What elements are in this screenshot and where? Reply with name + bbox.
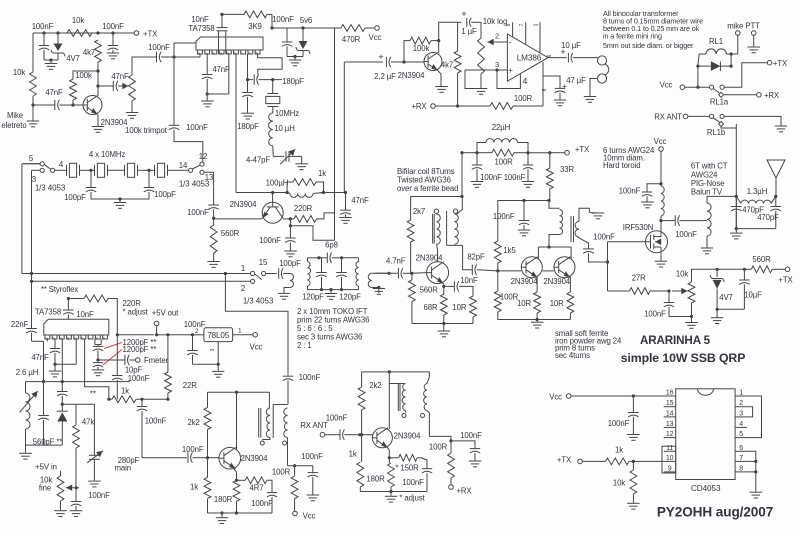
op-amp U2 LM386 [507, 34, 548, 81]
capacitor 10nF mixer [444, 276, 478, 296]
label Mike eletreto [1, 111, 27, 130]
resistor 150R [389, 454, 421, 472]
wire vfo tank bottom [26, 445, 63, 453]
transistor Q8 2N3904 buffer [219, 447, 268, 469]
resistor 180R rx [366, 458, 394, 493]
resistor 2k2 buffer [187, 392, 210, 458]
wire mixer bottom row [412, 322, 473, 331]
svg-text:main: main [115, 464, 132, 473]
red pointer a [104, 343, 122, 349]
label 2.6uH [16, 368, 39, 377]
terminal Vcc top [369, 26, 382, 42]
wire LM386 pin8 top [506, 22, 513, 37]
svg-text:4k7: 4k7 [83, 48, 95, 57]
label small soft ferrite [555, 329, 622, 360]
terminal Vcc relay [660, 81, 710, 90]
svg-text:6: 6 [542, 88, 548, 91]
svg-text:Fmeter: Fmeter [144, 356, 169, 365]
ground 100nF osc [284, 251, 297, 257]
svg-text:100R: 100R [500, 293, 519, 302]
wire bifilar left bottom to collector [437, 244, 438, 261]
svg-text:100nF: 100nF [299, 373, 321, 382]
wire buffer input [142, 457, 187, 459]
wire vfo out row [288, 464, 313, 467]
capacitor 22nF [11, 281, 37, 341]
svg-text:+TX: +TX [575, 145, 590, 154]
terminal Vcc vfo out [293, 511, 316, 520]
ground crystal filter [114, 199, 126, 208]
svg-text:4V7: 4V7 [66, 54, 80, 63]
label mike PTT [727, 22, 760, 31]
svg-text:100k: 100k [75, 71, 92, 80]
svg-text:in a ferrite mini ring: in a ferrite mini ring [603, 32, 662, 41]
crystal X1 10MHz [67, 163, 92, 177]
svg-text:100nF: 100nF [644, 310, 666, 319]
capacitor 100nF rx tap [283, 373, 321, 405]
svg-text:100k: 100k [413, 44, 430, 53]
svg-text:2: 2 [195, 328, 199, 335]
label simple 10W SSB QRP [621, 351, 746, 365]
wire relay left [696, 54, 699, 89]
ground balun [701, 248, 713, 254]
resistor 68R [423, 284, 447, 324]
label adjust rx [399, 494, 425, 503]
capacitor 100nF mic left [32, 22, 54, 60]
svg-text:+: + [562, 82, 567, 91]
wire bifilar right bottom to 82pF [463, 245, 473, 269]
resistor 1k rx [349, 435, 364, 492]
svg-text:4 x 10MHz: 4 x 10MHz [89, 150, 126, 159]
svg-text:5v6: 5v6 [300, 16, 312, 25]
svg-text:Mike: Mike [7, 111, 23, 120]
resistor 22R [165, 335, 198, 401]
svg-text:over a ferrite bead: over a ferrite bead [397, 184, 458, 193]
svg-text:100nF: 100nF [32, 22, 54, 31]
ground 47nF pin2 [201, 94, 214, 107]
capacitor 100nF vfo-mix [169, 57, 208, 132]
svg-text:1/3 4053: 1/3 4053 [243, 297, 274, 306]
diode varicap [57, 404, 68, 445]
resistor 10R driver right [550, 277, 574, 320]
svg-text:10MHz: 10MHz [275, 109, 299, 118]
transformer IFT2 main [342, 258, 359, 290]
terminal +TX PA [778, 267, 793, 285]
wire relay right [730, 54, 732, 66]
switch 1/3 4053 if [241, 258, 277, 306]
svg-text:47nF: 47nF [351, 196, 369, 205]
svg-text:RL1a: RL1a [710, 98, 729, 107]
svg-text:* 150R: * 150R [395, 464, 419, 473]
ground 5v6 [289, 60, 301, 66]
svg-text:10k log: 10k log [483, 17, 507, 26]
wire rx collector [388, 372, 390, 429]
svg-text:3: 3 [210, 348, 216, 351]
svg-text:**: ** [90, 390, 96, 399]
svg-text:6T with CT: 6T with CT [691, 162, 728, 171]
transformer IFT1 main [308, 256, 322, 289]
zener 4V7 mic [51, 33, 80, 63]
mosfet Q7 IRF530N [623, 223, 668, 253]
svg-text:100nF: 100nF [608, 419, 630, 428]
svg-text:5mm out side diam. or bigger: 5mm out side diam. or bigger [603, 41, 694, 50]
wire pin1 vfo [32, 339, 48, 383]
terminal Vcc 4053 [549, 393, 663, 402]
capacitor 100nF vfo out [137, 399, 167, 458]
svg-text:+: + [508, 66, 513, 75]
potentiometer 100k trimpot [125, 75, 168, 135]
svg-text:100µH: 100µH [266, 179, 289, 188]
capacitor 120pF right [336, 258, 361, 302]
svg-text:RL1: RL1 [709, 37, 723, 46]
wire zener-cap bottom [44, 58, 58, 63]
inductor 100uH [266, 179, 324, 198]
wire IFT1 bottom [322, 288, 342, 293]
wire +5V rail [117, 333, 204, 336]
svg-text:1k: 1k [318, 169, 326, 178]
transistor Q4 2N3904 mixer [416, 254, 449, 284]
svg-text:2N3904: 2N3904 [543, 277, 570, 286]
capacitor 100nF adjust [112, 335, 150, 399]
svg-text:4k7: 4k7 [441, 61, 453, 70]
ground 100nF fine [70, 511, 82, 517]
relay coil RL1 [699, 37, 731, 54]
svg-text:2: 2 [495, 32, 499, 41]
wire driver collectors [538, 245, 571, 258]
svg-text:1k: 1k [121, 387, 129, 396]
resistor 10R mixer [452, 296, 476, 324]
svg-text:100nF: 100nF [504, 173, 526, 182]
svg-text:100k trimpot: 100k trimpot [125, 126, 168, 135]
label balun [691, 162, 728, 197]
zener 4V7 PA [710, 269, 733, 311]
wire af collector [438, 41, 440, 54]
terminal +TX mic [134, 30, 158, 39]
svg-text:100nF: 100nF [182, 445, 204, 454]
capacitor 100nF 150R [402, 458, 432, 492]
ground rx rail [469, 461, 481, 467]
svg-text:47nF: 47nF [45, 88, 63, 97]
capacitor 1200pF b [93, 345, 157, 370]
svg-text:7: 7 [519, 23, 525, 26]
svg-text:10R: 10R [517, 299, 531, 308]
svg-text:560R: 560R [221, 229, 240, 238]
svg-text:8: 8 [506, 23, 512, 26]
svg-text:* adjust: * adjust [399, 494, 425, 503]
capacitor 47nF pin2 [202, 54, 230, 96]
wire pin3 [465, 60, 513, 89]
svg-text:470R: 470R [342, 35, 361, 44]
capacitor 100pF filter right [144, 170, 176, 199]
antenna [767, 160, 785, 207]
capacitor 10nF vfo [63, 297, 94, 319]
wire pin7 to 1k [85, 339, 109, 399]
svg-text:6p8: 6p8 [325, 241, 338, 250]
ground 100nF vfo out [307, 495, 320, 501]
resistor 100k af [410, 37, 440, 53]
svg-text:+5V in: +5V in [35, 463, 57, 472]
wire 5v6 drop rail [334, 28, 336, 240]
capacitor 6p8 [319, 241, 343, 264]
capacitor 100nF 5v6 [282, 28, 292, 57]
svg-text:1k: 1k [190, 483, 198, 492]
ground trimpot [126, 101, 138, 118]
wire mic input row [31, 103, 74, 106]
terminal RX ANT [683, 114, 709, 119]
ground rx preamp [385, 496, 397, 502]
label TOKO IFT [297, 307, 369, 350]
wire 100k top to 4k7 [73, 62, 100, 88]
svg-text:4V7: 4V7 [719, 293, 733, 302]
svg-text:22nF: 22nF [11, 320, 29, 329]
svg-text:560R: 560R [752, 255, 771, 264]
ground IFT1 [325, 294, 337, 300]
svg-text:LM386: LM386 [517, 54, 542, 63]
terminal +TX relay [767, 59, 788, 68]
svg-text:100pF: 100pF [279, 259, 301, 268]
svg-text:CD4053: CD4053 [691, 484, 721, 493]
capacitor 470pF left [731, 196, 764, 228]
svg-text:1 µF: 1 µF [461, 27, 477, 36]
svg-text:33R: 33R [560, 165, 574, 174]
ground 1200pF [92, 370, 104, 376]
svg-text:15: 15 [666, 400, 674, 407]
svg-text:100nF: 100nF [593, 233, 615, 242]
svg-text:6: 6 [739, 445, 743, 452]
svg-text:100nF: 100nF [675, 230, 697, 239]
switch RL1b [707, 114, 726, 137]
transformer rx out [389, 372, 429, 437]
wire pin1 up [199, 54, 201, 57]
wire af emitter [437, 70, 441, 86]
ground mixer [438, 331, 451, 337]
wire pot wiper to pin2 [488, 32, 512, 48]
svg-text:3: 3 [739, 410, 743, 417]
svg-text:2N3904: 2N3904 [230, 200, 257, 209]
wire rx bottom row [360, 492, 427, 496]
svg-text:47 µF: 47 µF [566, 76, 586, 85]
terminal +TX rail [565, 145, 590, 155]
switch RL1a [710, 85, 729, 106]
svg-text:68R: 68R [423, 303, 437, 312]
capacitor 100nF mic right [102, 22, 124, 53]
resistor 10R driver left [517, 277, 541, 320]
capacitor 2.2uF [374, 52, 405, 81]
svg-text:100pF: 100pF [64, 193, 86, 202]
svg-text:1200pF **: 1200pF ** [123, 345, 157, 354]
wire pin5 to 47nF node [207, 54, 229, 94]
wire LM386 pin1 top [534, 22, 541, 53]
label ARARINHA 5 [640, 334, 711, 347]
ground bias [685, 317, 698, 329]
label bifilar coil [397, 167, 458, 193]
svg-text:10k: 10k [676, 270, 688, 279]
wire driver base row [498, 270, 554, 272]
ground 10k log [475, 74, 487, 94]
trimmer 4-47pF [246, 146, 302, 165]
svg-text:560R: 560R [420, 286, 439, 295]
ground driver rail cap [518, 230, 530, 236]
resistor 100R driver [494, 271, 518, 320]
resistor 470R [341, 25, 374, 44]
svg-text:4: 4 [739, 421, 743, 428]
svg-text:1.3µH: 1.3µH [747, 187, 767, 196]
svg-text:2N3904: 2N3904 [394, 432, 421, 441]
ground IFT1 primary [278, 293, 290, 299]
svg-text:simple 10W SSB QRP: simple 10W SSB QRP [621, 351, 746, 365]
wire buffer emitter [234, 469, 238, 482]
svg-text:Vcc: Vcc [369, 33, 382, 42]
terminal Vcc PA [654, 137, 667, 186]
wire bias rail [716, 268, 747, 271]
transformer IFT2 secondary [368, 273, 380, 293]
svg-text:100nF: 100nF [128, 374, 150, 383]
wire buffer collector [236, 392, 238, 450]
ground rail right [522, 182, 534, 188]
crystal X3 10MHz [89, 150, 149, 177]
svg-text:78L05: 78L05 [207, 331, 229, 340]
red pointer b [103, 350, 122, 366]
capacitor 47uF [543, 76, 586, 100]
label 1k buffer [190, 483, 198, 492]
svg-text:Vcc: Vcc [549, 393, 562, 402]
capacitor 100nF vfo out [301, 452, 323, 494]
svg-text:10R: 10R [452, 303, 466, 312]
svg-text:fine: fine [39, 484, 51, 493]
ic U4 CD4053 [662, 389, 747, 493]
resistor 560R TX [744, 255, 785, 273]
svg-text:10: 10 [666, 455, 674, 462]
inductor 10uH [269, 113, 295, 146]
wire 4053 pin1-pin5 [747, 396, 761, 438]
crystal X2 10MHz [89, 163, 124, 177]
svg-text:100nF: 100nF [402, 478, 424, 487]
wire pin4 hook [497, 70, 528, 89]
wire IRF gate row [608, 241, 646, 243]
wire varicap node right [62, 403, 94, 405]
svg-text:3K9: 3K9 [248, 22, 262, 31]
svg-text:10k: 10k [72, 16, 84, 25]
ground 78L05 [212, 371, 225, 377]
capacitor 100pF filter left [64, 170, 96, 202]
switch 1/3 4053 left [23, 154, 67, 193]
inductor 1.3uH [736, 187, 777, 203]
wire node to box1 left [174, 43, 196, 57]
wire LM386 pin7 top [519, 22, 526, 45]
svg-text:100nF: 100nF [186, 123, 208, 132]
svg-text:RX ANT: RX ANT [654, 113, 682, 122]
svg-text:100nF: 100nF [480, 173, 502, 182]
wire +RX relay [724, 94, 757, 96]
svg-text:10nF: 10nF [191, 15, 209, 24]
capacitor 100nF to TA7358 [148, 43, 200, 62]
resistor 180R buffer [214, 480, 240, 514]
crystal 10MHz [266, 80, 299, 118]
capacitor 100nF rx rail [451, 431, 482, 461]
capacitor 47nF mic [45, 88, 73, 110]
resistor 10k top [67, 16, 92, 36]
capacitor 1uF [439, 9, 481, 41]
svg-text:RL1b: RL1b [707, 128, 726, 137]
svg-text:Vcc: Vcc [303, 511, 316, 520]
resistor 100R rail [477, 149, 528, 166]
potentiometer 10k bias [672, 269, 717, 316]
resistor 100R rx [429, 436, 455, 484]
svg-text:100R: 100R [272, 467, 291, 476]
ground PA vcc cap [641, 202, 654, 208]
wire pin6 vfo [55, 339, 76, 364]
resistor 33R [546, 153, 574, 201]
capacitor 100nF rx in [326, 414, 373, 440]
wire +TX rail [460, 151, 564, 154]
svg-text:47nF: 47nF [111, 72, 129, 81]
capacitor 100nF PA out [661, 215, 707, 239]
capacitor 47nF coupling [98, 72, 129, 91]
trimmer 280pF main [87, 404, 139, 480]
svg-text:Vcc: Vcc [250, 343, 263, 352]
wire pin12 path [174, 130, 203, 162]
capacitor 120pF left [302, 258, 327, 302]
wire antenna node [735, 124, 738, 230]
svg-text:22µH: 22µH [492, 123, 510, 132]
terminal Fmeter [136, 356, 169, 365]
svg-text:+RX: +RX [764, 91, 780, 100]
label 6 turns AWG24 [603, 146, 655, 170]
wire Q1 emitter to ground [92, 115, 104, 133]
transistor Q5 2N3904 driver [511, 257, 543, 286]
ground 180pF pin8 [241, 113, 254, 119]
svg-text:16: 16 [666, 390, 674, 397]
svg-text:+: + [461, 9, 466, 19]
ground mike PTT [748, 47, 761, 53]
svg-text:100R: 100R [429, 443, 448, 452]
transformer buffer out [259, 392, 288, 466]
ground 47uF [554, 100, 566, 106]
wire pin4 vfo [61, 339, 64, 383]
svg-text:10k: 10k [13, 68, 25, 77]
resistor 1k vfo out [107, 387, 168, 403]
svg-text:10nF: 10nF [460, 276, 478, 285]
svg-text:PY2OHH aug/2007: PY2OHH aug/2007 [657, 505, 773, 520]
svg-text:13: 13 [666, 421, 674, 428]
svg-text:** Styroflex: ** Styroflex [41, 285, 79, 294]
svg-text:4: 4 [523, 76, 528, 86]
label binocular transformer [603, 9, 703, 50]
terminal +TX 4053 [557, 456, 606, 465]
svg-text:10nF: 10nF [76, 310, 94, 319]
wire 5v6 bottom [287, 55, 303, 60]
ground 100nF mic right [107, 53, 119, 59]
svg-text:2: 2 [739, 400, 743, 407]
ground mic electret [27, 105, 39, 127]
svg-text:15: 15 [259, 258, 268, 267]
resistor 10k mic [13, 68, 37, 105]
capacitor 100nF buffer [182, 445, 219, 463]
transistor Q3 2N3904 af [398, 53, 442, 81]
wire pin13 path [204, 172, 214, 205]
transistor Q2 2N3904 oscillator [230, 200, 284, 223]
wire product to af [344, 62, 383, 193]
svg-text:Balun TV: Balun TV [691, 188, 723, 197]
capacitor 100pF if [279, 259, 301, 279]
ground 100nF 4053 [627, 435, 640, 441]
terminal +5V out [152, 309, 179, 335]
wire RL1b contact to ground [724, 116, 787, 131]
capacitor 10uF out [547, 41, 598, 62]
wire buffer top row [208, 391, 270, 394]
ground driver [531, 322, 544, 328]
op-amp U3 TA7358 vfo body [35, 308, 109, 340]
svg-text:10µF: 10µF [744, 291, 762, 300]
